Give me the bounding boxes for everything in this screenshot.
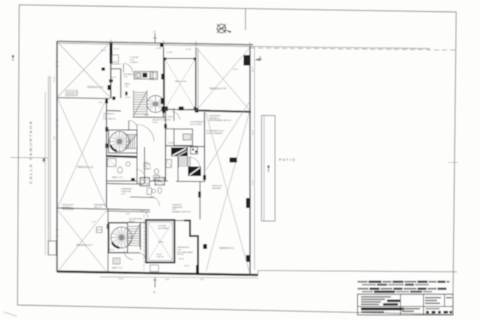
svg-text:PATIO: PATIO (279, 158, 296, 162)
svg-text:21.30: 21.30 (253, 179, 255, 185)
svg-text:LAVABO: LAVABO (143, 167, 151, 170)
svg-text:92.10: 92.10 (111, 77, 117, 79)
svg-text:GAS N.: GAS N. (129, 220, 136, 223)
door arc hall (129, 121, 138, 130)
stepped dark wall (184, 221, 198, 271)
svg-text:MONTABLE: MONTABLE (158, 227, 170, 230)
svg-text:TERRAZA 2.12: TERRAZA 2.12 (77, 166, 94, 169)
svg-text:TERRAZA 3.12: TERRAZA 3.12 (87, 86, 104, 89)
svg-text:SALA: SALA (158, 241, 164, 244)
svg-text:94.10: 94.10 (169, 143, 175, 145)
small arrow left margin (12, 55, 15, 62)
room mid-right (174, 129, 193, 146)
svg-text:FIJO VIDRIO: FIJO VIDRIO (190, 124, 203, 126)
svg-text:93.96: 93.96 (156, 48, 162, 50)
svg-text:95.98: 95.98 (186, 49, 192, 51)
black chunk right wall A (109, 79, 113, 82)
Nº cell (446, 297, 452, 298)
black wall chunk top-left (110, 43, 113, 64)
patio rectangle (262, 116, 276, 222)
spiral stair mid (109, 130, 138, 153)
mid bottom cell (402, 308, 420, 312)
door arc below ladder (124, 251, 133, 260)
svg-text:IMPERMEABILIZACION: IMPERMEABILIZACION (209, 119, 231, 122)
pergola text (209, 116, 231, 123)
tendedero text (177, 247, 194, 256)
svg-text:TERRAZA 2.0: TERRAZA 2.0 (219, 247, 235, 250)
black chunk near spiral (162, 108, 165, 114)
bedroom/terrace wall (199, 182, 201, 220)
black chunks right wall B (105, 127, 108, 132)
arrow mark near top right wall (256, 56, 263, 62)
svg-text:94.04: 94.04 (179, 259, 185, 261)
svg-text:25.40: 25.40 (153, 122, 159, 124)
hall texts (103, 114, 171, 125)
dim text (99, 48, 192, 104)
terrace B right wall (106, 98, 108, 208)
heavy box room (caseton) (146, 220, 175, 263)
ladder stair top (134, 90, 148, 116)
note paragraph 2 (358, 288, 447, 293)
hatched X box 2 (155, 178, 165, 186)
small 2-cell box terrace C (97, 227, 103, 233)
hatched small closet (183, 134, 191, 140)
walls around hall (107, 110, 122, 113)
chainage tick across street (10, 157, 48, 159)
kitchen text (130, 56, 139, 64)
black bar terrace H (230, 158, 238, 163)
svg-text:MIN. 2%: MIN. 2% (94, 207, 102, 209)
rotated dims right wall (253, 66, 255, 185)
right wall (249, 47, 251, 276)
svg-text:PTE 2%: PTE 2% (157, 256, 165, 258)
corridor wall horizontal (111, 68, 121, 70)
small box at bottom wall (150, 265, 159, 272)
bottom lot line right (258, 271, 457, 272)
svg-text:BAÑO 3.10: BAÑO 3.10 (112, 267, 123, 270)
svg-text:DISTR.: DISTR. (167, 117, 174, 119)
ladder stair bottom (128, 224, 140, 247)
top lot boundary dashed line (250, 48, 455, 50)
svg-text:BAÑO 4.20: BAÑO 4.20 (112, 176, 123, 179)
black chunk 2 on wall (161, 98, 165, 104)
wall above patio bottom (165, 109, 210, 110)
black jamb pair (131, 178, 135, 181)
bottom small room fixtures (113, 258, 120, 264)
top wall (57, 41, 253, 44)
svg-text:PATIO 9.30: PATIO 9.30 (175, 80, 187, 83)
left wall (56, 41, 58, 272)
section mark C top (154, 34, 156, 44)
corridor door arc right (172, 112, 180, 120)
window ticks left wall (56, 62, 59, 236)
spiral stair bottom enclosure (109, 223, 128, 253)
recibidor text (124, 74, 136, 78)
top lot boundary solid line (250, 47, 430, 49)
bath mid-left fixtures (108, 159, 117, 167)
black chunks on right wall (244, 55, 251, 66)
door arc lower left (136, 170, 146, 180)
svg-text:72.04: 72.04 (109, 250, 115, 252)
svg-text:PTE. MIN 2%: PTE. MIN 2% (103, 118, 116, 120)
black square corridor (112, 97, 115, 100)
svg-text:12.04: 12.04 (118, 279, 124, 281)
title block frame (358, 294, 454, 315)
door arc right of treads (189, 157, 200, 168)
small box right of stripe box1 (191, 147, 198, 154)
wall y210 (107, 209, 151, 210)
corridor WC box (112, 55, 119, 62)
thick wall below bath (107, 156, 138, 157)
dashed boundary left of caseton (143, 215, 145, 270)
wall y146 (165, 145, 205, 148)
black jamb (125, 92, 127, 96)
laundry text 2 (172, 204, 191, 214)
ladder stair mid (125, 135, 137, 149)
pilaster terrace A wall (108, 85, 111, 90)
stairwell bottom wall (133, 116, 166, 118)
left bump rect (48, 241, 56, 255)
small tick on right border (448, 162, 458, 164)
svg-text:VIDRIO LAMINAR: VIDRIO LAMINAR (206, 132, 223, 135)
title block bottom-left heavy text (361, 308, 404, 311)
stair treads between stripe boxes (179, 156, 191, 168)
svg-text:49.07: 49.07 (233, 69, 239, 71)
svg-text:49.07: 49.07 (253, 66, 255, 72)
door arcs bottom (141, 211, 148, 218)
patio arrow mark (267, 165, 270, 172)
faint mark below bottom-left corner (4, 312, 17, 317)
title block left cell texts (361, 296, 400, 305)
fridge box (150, 72, 158, 80)
boundary tick top (245, 8, 247, 30)
black shaft on wall (161, 74, 165, 80)
pilaster terrace B top (105, 99, 108, 104)
spiral stair top (147, 96, 164, 113)
compass north symbol (217, 24, 232, 33)
street lines CALLE (44, 92, 46, 255)
svg-text:ARMARIO EMPOTR.: ARMARIO EMPOTR. (172, 210, 191, 213)
black box in terrace A (102, 68, 106, 71)
terrace F bottom thick wall (196, 111, 251, 112)
svg-text:G.RES.C: G.RES.C (130, 62, 139, 64)
svg-text:MADERA: MADERA (212, 187, 221, 190)
svg-text:P.P.T.B.: P.P.T.B. (177, 254, 184, 256)
dims bottom (92, 183, 205, 282)
black chunk on top wall (160, 43, 164, 47)
bath2 fixtures (154, 169, 158, 175)
plano number digits (426, 311, 452, 314)
left vertical wall (107, 208, 109, 272)
black blob bottom-left of patio (162, 107, 169, 112)
entry door arc (124, 64, 133, 73)
black stripe stair box (171, 148, 187, 157)
terrace A bottom wall (57, 97, 110, 100)
svg-text:92.10: 92.10 (101, 50, 107, 52)
wall x163.5 (163, 47, 165, 117)
laundry text (121, 188, 132, 196)
bottom wall (57, 272, 258, 276)
wall between center and bottom rooms (107, 180, 138, 182)
arrow flag on street line (43, 158, 45, 163)
black corner block terrace F (195, 108, 199, 113)
bath3 fixtures (147, 188, 152, 195)
boiler text (94, 205, 142, 252)
top wall hatch ticks (58, 40, 249, 46)
kitchen counter (134, 72, 153, 80)
section mark C bottom (154, 277, 156, 288)
svg-text:49.07: 49.07 (253, 129, 255, 135)
svg-text:95.98: 95.98 (54, 76, 56, 82)
svg-text:10.05: 10.05 (125, 97, 131, 99)
svg-text:TERRAZA 47.07: TERRAZA 47.07 (209, 88, 227, 91)
svg-text:TERRAZA 2.17: TERRAZA 2.17 (76, 244, 93, 247)
svg-text:95.98: 95.98 (167, 52, 173, 54)
big salon door arc (137, 125, 154, 142)
svg-text:92.10: 92.10 (114, 49, 120, 51)
corridor wall vertical (120, 69, 122, 98)
terrace B bottom wall (57, 208, 107, 209)
rotated dims left wall (54, 76, 56, 140)
black box 2 (188, 167, 201, 177)
terrace A right wall (110, 42, 112, 99)
spiral stair bottom (111, 227, 132, 248)
misc wall segments center (144, 147, 146, 184)
svg-text:96.10: 96.10 (144, 115, 150, 117)
note paragraph 1 (358, 281, 450, 286)
wall junction ticks top (111, 40, 250, 47)
svg-text:CALLE SAMUNTADA: CALLE SAMUNTADA (29, 120, 33, 184)
svg-text:94.04: 94.04 (184, 266, 190, 268)
hatched X box 1 (140, 178, 150, 187)
right lot thin line (254, 47, 256, 270)
right top cell texts (425, 297, 441, 304)
